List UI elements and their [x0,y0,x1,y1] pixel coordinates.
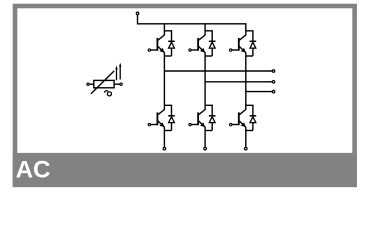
diode D4 [164,105,174,130]
wire emitter leg 1 bottom [163,127,165,147]
wire collector leg 2 top [204,24,206,36]
wire thermistor right lead [114,83,120,85]
wire AC output line 2 [205,81,272,83]
transistor Q4 [150,110,164,128]
diode D3 [246,31,256,56]
wire phase leg 3 middle [245,52,247,110]
thermistor arrow 2 [119,63,121,80]
wire AC output line 1 [164,70,272,72]
transistor Q2 [191,35,205,53]
wire phase leg 2 middle [204,52,206,110]
thermistor diagonal [91,71,114,94]
diode D6 [246,105,256,130]
wire phase leg 1 middle [163,52,165,110]
terminal AC 1 [272,70,275,73]
terminal DC+ [136,12,139,15]
wire top rail [138,15,246,35]
thermistor R1 body [94,80,114,87]
transistor Q5 [191,110,205,128]
terminal emitter 2 [204,147,207,150]
wire emitter leg 2 bottom [204,127,206,147]
terminal AC 2 [272,81,275,84]
AC label bar [13,153,357,187]
frame border [15,6,355,185]
diode D5 [205,105,215,130]
diode D2 [205,31,215,56]
wire AC output line 3 [246,91,272,93]
wire thermistor left lead [90,83,94,85]
thermistor theta symbol [104,91,111,96]
terminal AC 3 [272,90,275,93]
thermistor arrow 1 [115,66,117,81]
svg-text:AC: AC [16,157,51,184]
transistor Q3 [232,35,246,53]
wire collector leg 1 top [163,24,165,36]
terminal thermistor right [120,83,122,85]
transistor Q6 [232,110,246,128]
terminal thermistor left [87,83,89,85]
terminal emitter 1 [163,147,166,150]
diode D1 [164,31,174,56]
transistor Q1 [150,35,164,53]
wire emitter leg 3 bottom [245,127,247,147]
terminal emitter 3 [245,147,248,150]
